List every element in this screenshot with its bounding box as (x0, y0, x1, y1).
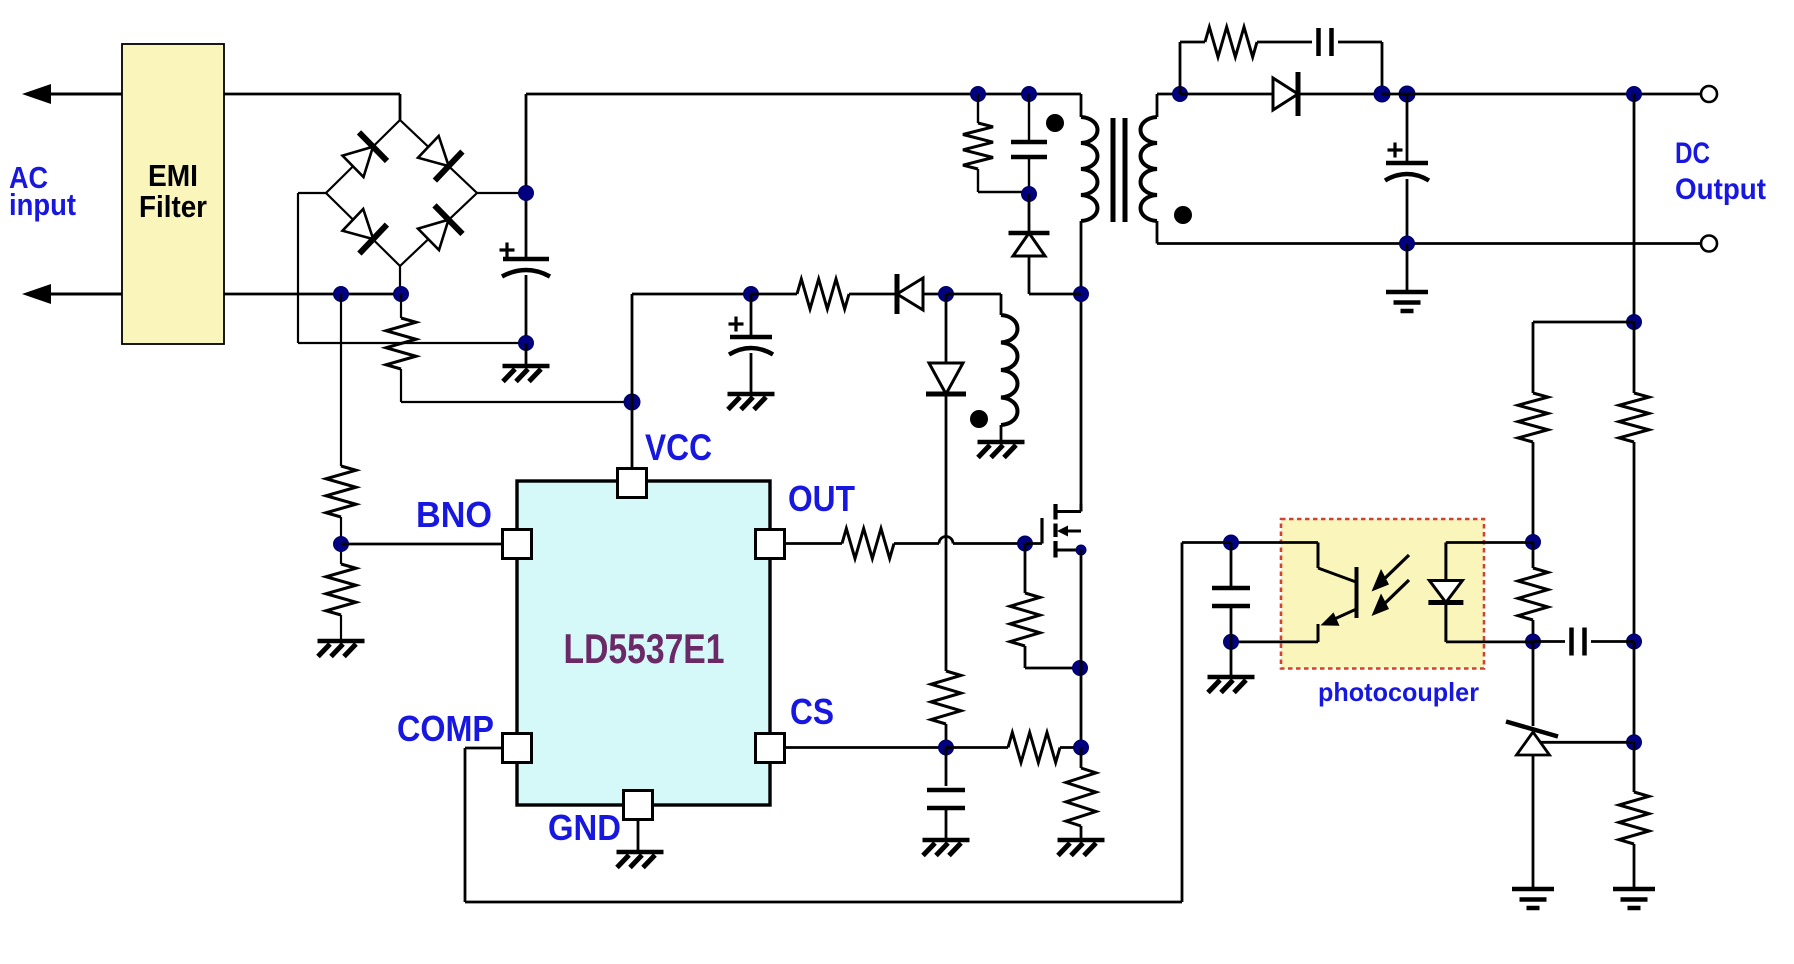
svg-text:EMI: EMI (148, 158, 198, 193)
capacitor secondary snubber C2 (1319, 28, 1332, 56)
node divider split (1627, 315, 1642, 330)
inductor secondary winding (1141, 117, 1158, 221)
photocoupler box (1281, 519, 1484, 669)
node MOSFET source-body (1076, 545, 1086, 555)
diode bridge D3 (bottom-left) (343, 209, 387, 254)
wire BNO to pin (341, 543, 503, 546)
ground IC GND (617, 820, 664, 868)
ground bulk cap (503, 343, 550, 382)
label CS (790, 691, 834, 732)
wire resistor to diode (849, 293, 896, 296)
node output cap bottom (1400, 236, 1415, 251)
diode clamp D7 (1009, 194, 1050, 256)
label EMI Filter (139, 158, 207, 224)
ground TL431 (1512, 889, 1554, 908)
ground divider (1613, 844, 1655, 908)
wire TL431 anode (1532, 755, 1535, 889)
wire OUT pin lead (784, 542, 842, 545)
capacitor bulk (+ sign) (500, 243, 515, 258)
wire VCC riser (632, 294, 751, 402)
capacitor bulk (502, 259, 550, 277)
resistor gate pulldown R7 (1010, 593, 1040, 646)
resistor line sense R5 (931, 671, 961, 724)
wire bridge left stub to ground rail (298, 193, 526, 343)
svg-text:input: input (9, 187, 76, 222)
resistor current sense R15 (1066, 748, 1096, 841)
diode output rectifier D8 (1273, 72, 1298, 116)
svg-text:DC: DC (1675, 137, 1710, 170)
ground BNO (318, 615, 365, 657)
pin COMP (503, 734, 532, 763)
pin OUT (756, 530, 785, 559)
wire resistor to CS node (945, 724, 948, 748)
resistor gate R6 (842, 529, 894, 559)
svg-text:GND: GND (548, 807, 621, 848)
wire opto LED cathode (1446, 641, 1533, 644)
svg-text:VCC: VCC (645, 427, 712, 468)
node comp cap right (1627, 634, 1642, 649)
wire right leg (1633, 442, 1636, 642)
label OUT (788, 478, 855, 519)
wire divider drop (1633, 94, 1636, 322)
wire left leg (1532, 442, 1535, 542)
IC U1 LD5537E1 (517, 481, 770, 805)
pin CS (756, 734, 785, 763)
svg-text:BNO: BNO (416, 494, 492, 535)
wire BNO branch (340, 294, 342, 466)
svg-text:LD5537E1: LD5537E1 (564, 625, 725, 672)
resistor BNO lower R3 (326, 564, 356, 615)
capacitor clamp C1 (1011, 94, 1047, 192)
node opto collector (1224, 535, 1239, 550)
diode opto LED D9 (1428, 543, 1463, 642)
node clamp RC bottom (1022, 187, 1037, 202)
node snubber right (1374, 86, 1390, 102)
wire TL431 ref line (1541, 741, 1634, 744)
label GND (548, 807, 621, 848)
resistor secondary snubber R9 (1180, 27, 1257, 94)
wire VCC pin lead (631, 402, 634, 468)
arrow AC input bottom (22, 284, 51, 304)
wire gate pulldown bottom (1025, 646, 1080, 668)
node clamp R top (971, 87, 986, 102)
wire bridge bottom stub (399, 266, 401, 294)
wire bridge diamond (326, 120, 477, 266)
wire output+ rail (1382, 93, 1701, 96)
wire HV+ riser (525, 94, 528, 259)
node VCC junction (624, 394, 640, 410)
node clamp C top (1022, 87, 1037, 102)
ground opto emitter (1208, 642, 1255, 693)
resistor VCC bootstrap R4 (797, 279, 849, 309)
diode VCC bootstrap D5 (897, 274, 923, 314)
node clamp-drain (1074, 287, 1089, 302)
label AC input (9, 160, 76, 222)
node BNO (334, 537, 349, 552)
label BNO (416, 494, 492, 535)
pin BNO (503, 530, 532, 559)
wire secondary top (1157, 94, 1180, 117)
svg-text:Output: Output (1675, 173, 1766, 206)
wire snubber mid (1257, 41, 1312, 44)
wire diode to aux node (923, 293, 946, 296)
resistor BNO upper R2 (326, 466, 356, 517)
inductor primary winding (1081, 117, 1098, 221)
node opto emitter (1224, 634, 1239, 649)
capacitor compensation C3 (1572, 628, 1585, 656)
resistor clamp R8 (963, 94, 1029, 192)
wire bulk cap bottom (525, 275, 528, 343)
wire series R to source (1060, 746, 1081, 749)
wire AC line N (bottom) (30, 293, 122, 296)
node output cap branch (1399, 86, 1415, 102)
wire COMP feedback loop (465, 543, 1231, 903)
node AC-startup branch (394, 287, 409, 302)
label LD5537E1 (564, 625, 725, 672)
node divider top (1627, 87, 1642, 102)
node LED anode (1526, 535, 1541, 550)
node aux-diode (939, 287, 954, 302)
terminal DC- (1701, 236, 1717, 252)
capacitor CS filter C5 (927, 748, 965, 841)
label DC Output (1675, 137, 1766, 206)
capacitor VCC (+ sign) (729, 317, 744, 332)
node primary phase dot (1046, 114, 1064, 132)
transformer core (1113, 118, 1125, 222)
ground sense resistor (1058, 840, 1105, 856)
resistor feedback upper-left R10 (1518, 393, 1548, 442)
wire aux-diode branch (945, 294, 948, 363)
capacitor COMP filter C4 (1212, 543, 1250, 642)
svg-text:COMP: COMP (397, 708, 494, 749)
wire CS pin lead (784, 746, 946, 749)
resistor divider upper-right R11 (1619, 322, 1649, 442)
node secondary phase dot (1174, 206, 1192, 224)
ground aux winding (978, 425, 1025, 458)
wire opto LED anode (1446, 541, 1533, 544)
diode bridge D2 (top-right) (418, 136, 462, 181)
node secondary-snubber (1173, 87, 1188, 102)
diode line sense D6 (926, 363, 966, 394)
wire diode branch down (945, 396, 948, 671)
wire gate pulldown top (1024, 544, 1027, 594)
arrow light 2 (1372, 580, 1410, 616)
inductor aux winding (1001, 315, 1018, 425)
svg-text:CS: CS (790, 691, 834, 732)
diode bridge D4 (bottom-right) (418, 205, 463, 250)
node bulk cap ground (519, 336, 534, 351)
wire comp cap left (1533, 640, 1565, 643)
wire gate to MOSFET (1025, 542, 1042, 545)
wire secondary bottom (1157, 221, 1709, 244)
wire EMI to bridge top (224, 94, 400, 120)
svg-text:photocoupler: photocoupler (1318, 677, 1479, 707)
node AC-BNO branch (334, 287, 349, 302)
wire VCC rail to resistor (751, 293, 797, 296)
arrow light 1 (1372, 555, 1410, 592)
node REF (1627, 735, 1642, 750)
label VCC (645, 427, 712, 468)
transistor Q1 MOSFET (1042, 504, 1081, 558)
wire CS to series R (946, 746, 1008, 749)
ground CS filter (923, 840, 970, 856)
EMI filter block (122, 44, 224, 344)
wire AC line L (top) (30, 93, 122, 96)
wire EMI to AC bottom rail (224, 293, 401, 296)
resistor LED parallel R13 (1518, 542, 1548, 642)
wire secondary rail to diode (1180, 93, 1273, 96)
node CS filter (939, 740, 954, 755)
node source-sense (1074, 740, 1089, 755)
wire BNO mid (340, 517, 342, 564)
svg-text:Filter: Filter (139, 189, 207, 224)
wire right leg 2 (1633, 642, 1636, 743)
wire opto emitter (1231, 641, 1318, 644)
wire diode to output node (1300, 93, 1382, 96)
capacitor VCC (729, 294, 773, 355)
node bridge+cap (519, 186, 534, 201)
svg-text:OUT: OUT (788, 478, 855, 519)
node VCC cap (744, 287, 759, 302)
resistor startup R1 (386, 294, 632, 402)
ground VCC cap (728, 353, 775, 410)
wire source (1080, 550, 1083, 748)
wire bridge right stub (477, 192, 526, 194)
resistor divider lower R12 (1619, 742, 1649, 844)
wire snubber right (1338, 42, 1382, 94)
wire gate line with hop (894, 537, 1025, 544)
diode bridge D1 (top-left) (343, 132, 388, 177)
node aux phase dot (970, 410, 988, 428)
pin GND (624, 791, 653, 820)
capacitor output (+ sign) (1388, 143, 1403, 158)
wire TL431 top (1532, 642, 1535, 727)
wire clamp diode to drain (1029, 255, 1081, 294)
wire drain (1080, 94, 1083, 512)
transistor opto phototransistor (1318, 567, 1357, 642)
shunt regulator TL431 U2 (1506, 722, 1558, 756)
wire opto collector (1231, 543, 1356, 583)
wire aux top lead (946, 294, 1001, 315)
wire output cap bottom (1406, 179, 1409, 244)
ground output cap (1386, 244, 1428, 312)
terminal DC+ (1701, 86, 1717, 102)
wire comp cap right lead (1591, 640, 1634, 643)
node pulldown-source (1073, 661, 1088, 676)
label photocoupler (1318, 677, 1479, 707)
node gate (1018, 536, 1033, 551)
wire divider left branch (1533, 322, 1634, 393)
pin VCC (618, 469, 647, 498)
resistor CS series R14 (1008, 733, 1060, 763)
capacitor output (1385, 94, 1429, 181)
label COMP (397, 708, 494, 749)
node LED cathode (1526, 634, 1541, 649)
wire HV+ rail to transformer (526, 93, 1081, 96)
arrow AC input top (22, 84, 51, 104)
